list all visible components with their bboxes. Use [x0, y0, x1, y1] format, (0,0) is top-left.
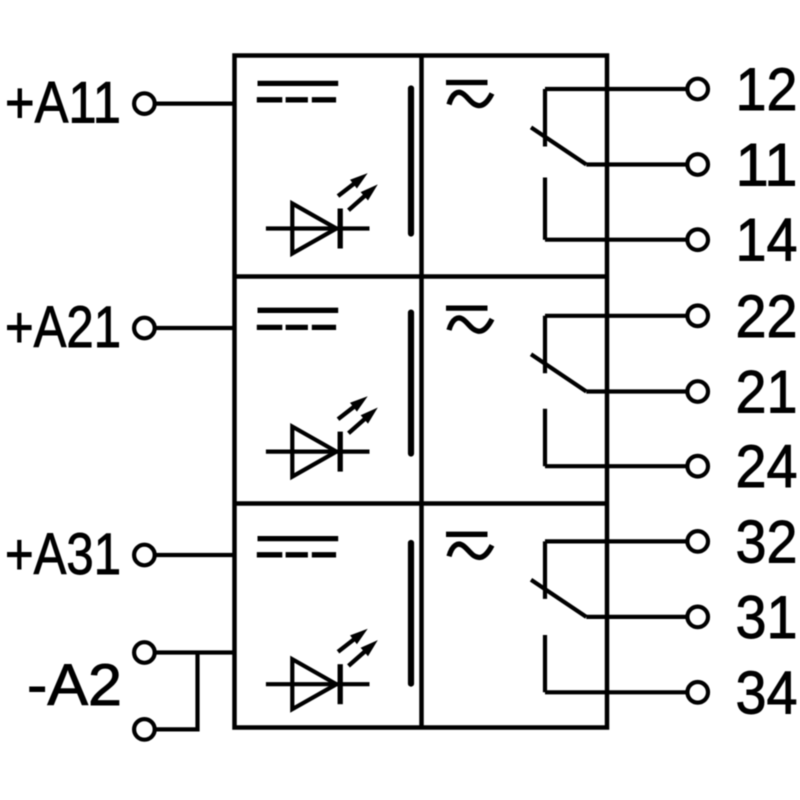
- svg-text:+A31: +A31: [5, 522, 121, 587]
- svg-text:-A2: -A2: [27, 653, 122, 718]
- svg-text:31: 31: [736, 583, 798, 651]
- svg-text:+A21: +A21: [5, 295, 121, 360]
- svg-text:24: 24: [736, 432, 798, 500]
- svg-text:32: 32: [736, 507, 798, 575]
- svg-text:11: 11: [736, 131, 798, 199]
- svg-text:+A11: +A11: [5, 71, 121, 136]
- svg-text:14: 14: [736, 206, 798, 274]
- svg-text:22: 22: [736, 282, 798, 350]
- svg-text:21: 21: [736, 358, 798, 426]
- svg-text:34: 34: [736, 658, 798, 726]
- svg-text:12: 12: [736, 55, 798, 123]
